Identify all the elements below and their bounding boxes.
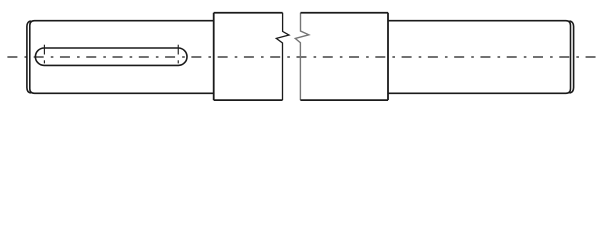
break line right (zigzag, lighter) xyxy=(295,13,309,100)
centerline (horizontal dash-dot axis) xyxy=(7,56,595,58)
shaft left section outline (small diameter, rounded left corners) xyxy=(30,21,214,94)
keyway right arc center mark (vertical dash-dot) xyxy=(177,45,179,64)
keyway slot (stadium outline) xyxy=(35,48,187,65)
keyway left arc center mark (vertical dash-dot) xyxy=(43,45,45,64)
shoulder step 2 (large middle section to right section) xyxy=(387,13,389,100)
middle section right part outline (top and bottom edges) xyxy=(300,13,388,100)
middle section left part outline (top and bottom edges) xyxy=(214,13,283,100)
shaft right section outline (small diameter, rounded right corners) xyxy=(388,21,571,94)
break line left (zigzag) xyxy=(276,13,289,100)
left end face line xyxy=(27,21,31,93)
right end face line xyxy=(570,21,574,93)
shoulder step 1 (left section to large middle section) xyxy=(213,13,215,100)
